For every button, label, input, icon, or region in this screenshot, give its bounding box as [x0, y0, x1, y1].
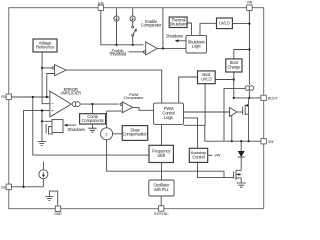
- op-amp vref buffer comparator: [52, 65, 66, 76]
- thermal shutdown box: [169, 17, 187, 28]
- node dot FB buffer tap: [46, 96, 48, 98]
- wire summing to slope comp: [113, 133, 123, 135]
- pin SW: [261, 139, 274, 144]
- wire to shutdown fet box: [42, 120, 52, 122]
- svg-text:BOOT: BOOT: [268, 97, 278, 101]
- ground ss area: [45, 191, 57, 206]
- voltage reference box: [33, 39, 57, 52]
- wire pwm logic down to frequency shift: [161, 124, 163, 145]
- wire SW rail: [205, 140, 261, 142]
- wire pwm comparator lower input: [107, 111, 123, 128]
- wire thermal shutdown to shutdown logic: [187, 23, 191, 35]
- svg-text:EN: EN: [98, 0, 104, 5]
- wire EN drop and enable rail: [101, 10, 144, 44]
- svg-text:VIN: VIN: [214, 154, 220, 158]
- svg-text:Threshold: Threshold: [109, 52, 127, 57]
- node dot boot rail: [233, 97, 235, 99]
- svg-text:Shutdown: Shutdown: [170, 21, 188, 26]
- wire shutdown fet branch: [41, 111, 43, 142]
- wire SS rail to error amp plus input: [24, 111, 50, 187]
- svg-text:Shutdown: Shutdown: [68, 127, 86, 132]
- shutdown fet box: [52, 120, 63, 133]
- node dot Ip on enable rail: [115, 44, 117, 46]
- svg-text:Shift: Shift: [157, 153, 166, 158]
- wire boot switch branch down to SW rail: [224, 88, 245, 141]
- svg-text:Charge: Charge: [228, 64, 242, 69]
- current source SS: [39, 162, 48, 187]
- node dot hs source on SW rail: [248, 140, 250, 142]
- wire bootstrap control vin stub: [208, 154, 213, 156]
- node dot Ih on enable rail: [132, 44, 134, 46]
- wire pwm logic to bootstrap control: [184, 118, 198, 148]
- ground shutdown fet: [38, 142, 46, 146]
- svg-text:UVLO: UVLO: [201, 76, 212, 81]
- wire boot uvlo bottom to pwm logic right: [184, 84, 206, 126]
- wire frequency shift to oscillator: [161, 163, 163, 181]
- wire VIN drop: [248, 10, 250, 85]
- wire error amp out to pwm comparator: [80, 103, 118, 105]
- svg-text:SW: SW: [268, 140, 274, 144]
- svg-text:Components: Components: [82, 118, 104, 123]
- wire VIN to boot charge: [234, 50, 250, 59]
- wire comparator node to top border: [162, 8, 164, 48]
- wire shutdown signal arrow into box: [67, 124, 76, 126]
- svg-text:with PLL: with PLL: [154, 187, 170, 192]
- wire comp box to ground: [92, 124, 94, 128]
- current source Ip: [114, 8, 119, 45]
- svg-text:Comparator: Comparator: [124, 95, 145, 100]
- svg-text:Reference: Reference: [36, 44, 55, 49]
- pin EN: [98, 0, 104, 10]
- switch: [132, 26, 134, 28]
- wire summing node down current sense: [107, 140, 224, 178]
- wire oscillator to rtsync pin: [160, 196, 162, 206]
- wire UVLO right to VIN line: [232, 23, 249, 25]
- wire pwm logic out to driver: [184, 111, 230, 113]
- wire UVLO left to shutdown logic: [200, 23, 217, 35]
- node dot vref buffer tap: [41, 67, 43, 69]
- node dot shutdown fet tap: [41, 109, 43, 111]
- summing node: [101, 128, 113, 140]
- op-amp enable comparator: [141, 19, 162, 55]
- svg-text:SS: SS: [1, 185, 6, 189]
- svg-text:Shutdown: Shutdown: [166, 33, 184, 38]
- node dot VIN-UVLO: [248, 23, 250, 25]
- gm output symbol: [72, 102, 80, 107]
- transistor shutdown fet: [46, 124, 53, 135]
- svg-text:FB: FB: [1, 95, 6, 99]
- pin FB: [1, 94, 11, 99]
- wire boot switch to boot rail: [248, 90, 250, 98]
- wire shutdown-logic column to SW rail: [204, 125, 206, 141]
- wire bootstrap control to ls fet gate: [198, 162, 234, 177]
- chip outline border: [9, 8, 264, 209]
- node dot diode-boot rail: [248, 97, 250, 99]
- ground comp components: [88, 128, 96, 132]
- pin RT/SYNC: [154, 206, 169, 216]
- wire boot uvlo right tap: [215, 79, 234, 81]
- node dot ss: [22, 186, 24, 188]
- op-amp error amplifier: [50, 87, 81, 117]
- node dot boot uvlo tap: [233, 78, 235, 80]
- wire shutdown arrow from logic: [178, 40, 186, 42]
- wire boot charge down to boot rail: [233, 72, 235, 98]
- wire buffer out to pwm logic top: [66, 70, 162, 103]
- wire fb tap to buffer lower input: [47, 74, 55, 98]
- svg-text:UVLO: UVLO: [219, 21, 230, 26]
- node dot comp tap: [91, 103, 93, 105]
- op-amp pwm comparator: [120, 102, 133, 113]
- ground low side fet: [237, 183, 246, 187]
- slope compensation box: [122, 126, 148, 141]
- node dot fet box tap: [41, 120, 43, 122]
- svg-text:VIN: VIN: [247, 1, 253, 5]
- transistor low side fet: [234, 170, 242, 183]
- boot switch double-circle: [245, 86, 254, 91]
- pin BOOT: [261, 95, 278, 100]
- wire comp tap down: [92, 104, 94, 114]
- wire driver return to SW rail: [231, 115, 233, 141]
- svg-text:Logic: Logic: [164, 115, 173, 120]
- pin GND: [54, 206, 62, 216]
- wire FB foldback to frequency shift: [33, 97, 149, 155]
- wire pwm comparator out: [133, 107, 154, 110]
- wire SS pin rail: [12, 186, 44, 188]
- node dot driver return: [231, 140, 233, 142]
- wire boot rail to BOOT pin: [234, 97, 261, 99]
- wire boot uvlo left to pwm logic top: [179, 77, 198, 103]
- node dot FB foldback tap: [32, 96, 34, 98]
- svg-text:Compensation: Compensation: [123, 132, 149, 137]
- node dot comparator out: [162, 47, 164, 49]
- diode catch: [238, 141, 245, 170]
- wire enable threshold input: [129, 51, 144, 53]
- bootstrap control box: [189, 148, 207, 162]
- comp components box: [80, 114, 106, 124]
- wire comparator out to shutdown logic: [157, 47, 186, 49]
- boot charge box: [226, 59, 242, 72]
- current source Ih with switch: [130, 8, 137, 45]
- wire vref to buffer: [42, 67, 52, 69]
- wire driver to hs gate: [237, 111, 243, 113]
- node dot diode tap: [240, 140, 242, 142]
- wire vref drop to error amp inverting input: [42, 52, 50, 104]
- svg-text:Logic: Logic: [192, 44, 201, 49]
- svg-text:RT/SYNC: RT/SYNC: [154, 212, 169, 216]
- pwm control logic box: [154, 103, 184, 124]
- oscillator box: [149, 180, 174, 196]
- svg-text:AMPLIFIER: AMPLIFIER: [60, 91, 81, 96]
- driver buffer: [230, 108, 238, 117]
- svg-text:Comparator: Comparator: [141, 23, 162, 28]
- UVLO box: [217, 18, 233, 29]
- shutdown logic box: [186, 35, 207, 53]
- frequency shift box: [149, 145, 173, 162]
- pin SS: [1, 184, 11, 189]
- pin VIN: [247, 1, 253, 11]
- transistor high side fet: [243, 98, 249, 141]
- svg-text:Control: Control: [192, 154, 205, 159]
- boot UVLO box: [198, 71, 216, 84]
- node dot VIN branch: [248, 48, 250, 50]
- wire FB rail: [12, 96, 50, 98]
- svg-text:GND: GND: [54, 212, 62, 216]
